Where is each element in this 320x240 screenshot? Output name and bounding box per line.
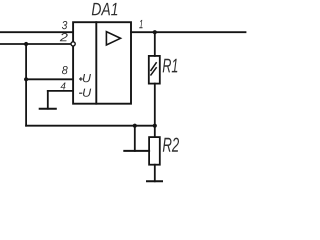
- node junction dot tap branch: [133, 124, 137, 128]
- node junction dot pin 2 bus: [24, 42, 28, 46]
- op-amp DA1 amplifier triangle symbol: [106, 32, 120, 45]
- wire ground lead left: [47, 91, 49, 109]
- wire R2 bottom lead: [154, 165, 156, 182]
- label DA1: [92, 3, 117, 15]
- wire bottom feedback: [26, 125, 155, 127]
- wire tap vertical: [134, 126, 136, 151]
- pin number 4: [61, 82, 66, 89]
- wire pin 1 output: [131, 31, 246, 33]
- ground bar left: [40, 108, 56, 110]
- inversion circle pin 2: [71, 42, 75, 46]
- resistor R1 body: [149, 56, 160, 84]
- tap bar at R2: [124, 150, 149, 152]
- ground bar bottom: [147, 180, 162, 182]
- wire pin 2 input: [0, 43, 70, 45]
- label +U: [79, 74, 91, 82]
- pin number 2: [60, 33, 68, 41]
- label R1: [163, 59, 178, 73]
- op-amp DA1 body: [73, 22, 131, 104]
- node junction dot output: [153, 30, 157, 34]
- resistor R1 diagonal mark upper: [151, 63, 156, 71]
- resistor R2 body: [149, 137, 160, 165]
- wire left bus vertical: [25, 44, 27, 126]
- wire pin 8 supply: [26, 78, 73, 80]
- resistor R1 diagonal mark lower: [151, 68, 156, 75]
- wire R1 top lead: [154, 32, 156, 56]
- pin number 3: [62, 21, 67, 29]
- node junction dot R2 branch: [153, 124, 157, 128]
- wire pin 4 supply: [48, 90, 73, 92]
- op-amp DA1 inner divider: [95, 22, 97, 104]
- wire pin 3 input: [0, 31, 73, 33]
- wire R2 top lead: [154, 126, 156, 137]
- label -U: [79, 89, 91, 97]
- pin number 8: [62, 66, 68, 74]
- pin number 1: [139, 20, 142, 28]
- node junction dot pin 8 bus: [24, 77, 28, 81]
- label R2: [163, 138, 179, 152]
- wire R1 bottom lead: [154, 84, 156, 126]
